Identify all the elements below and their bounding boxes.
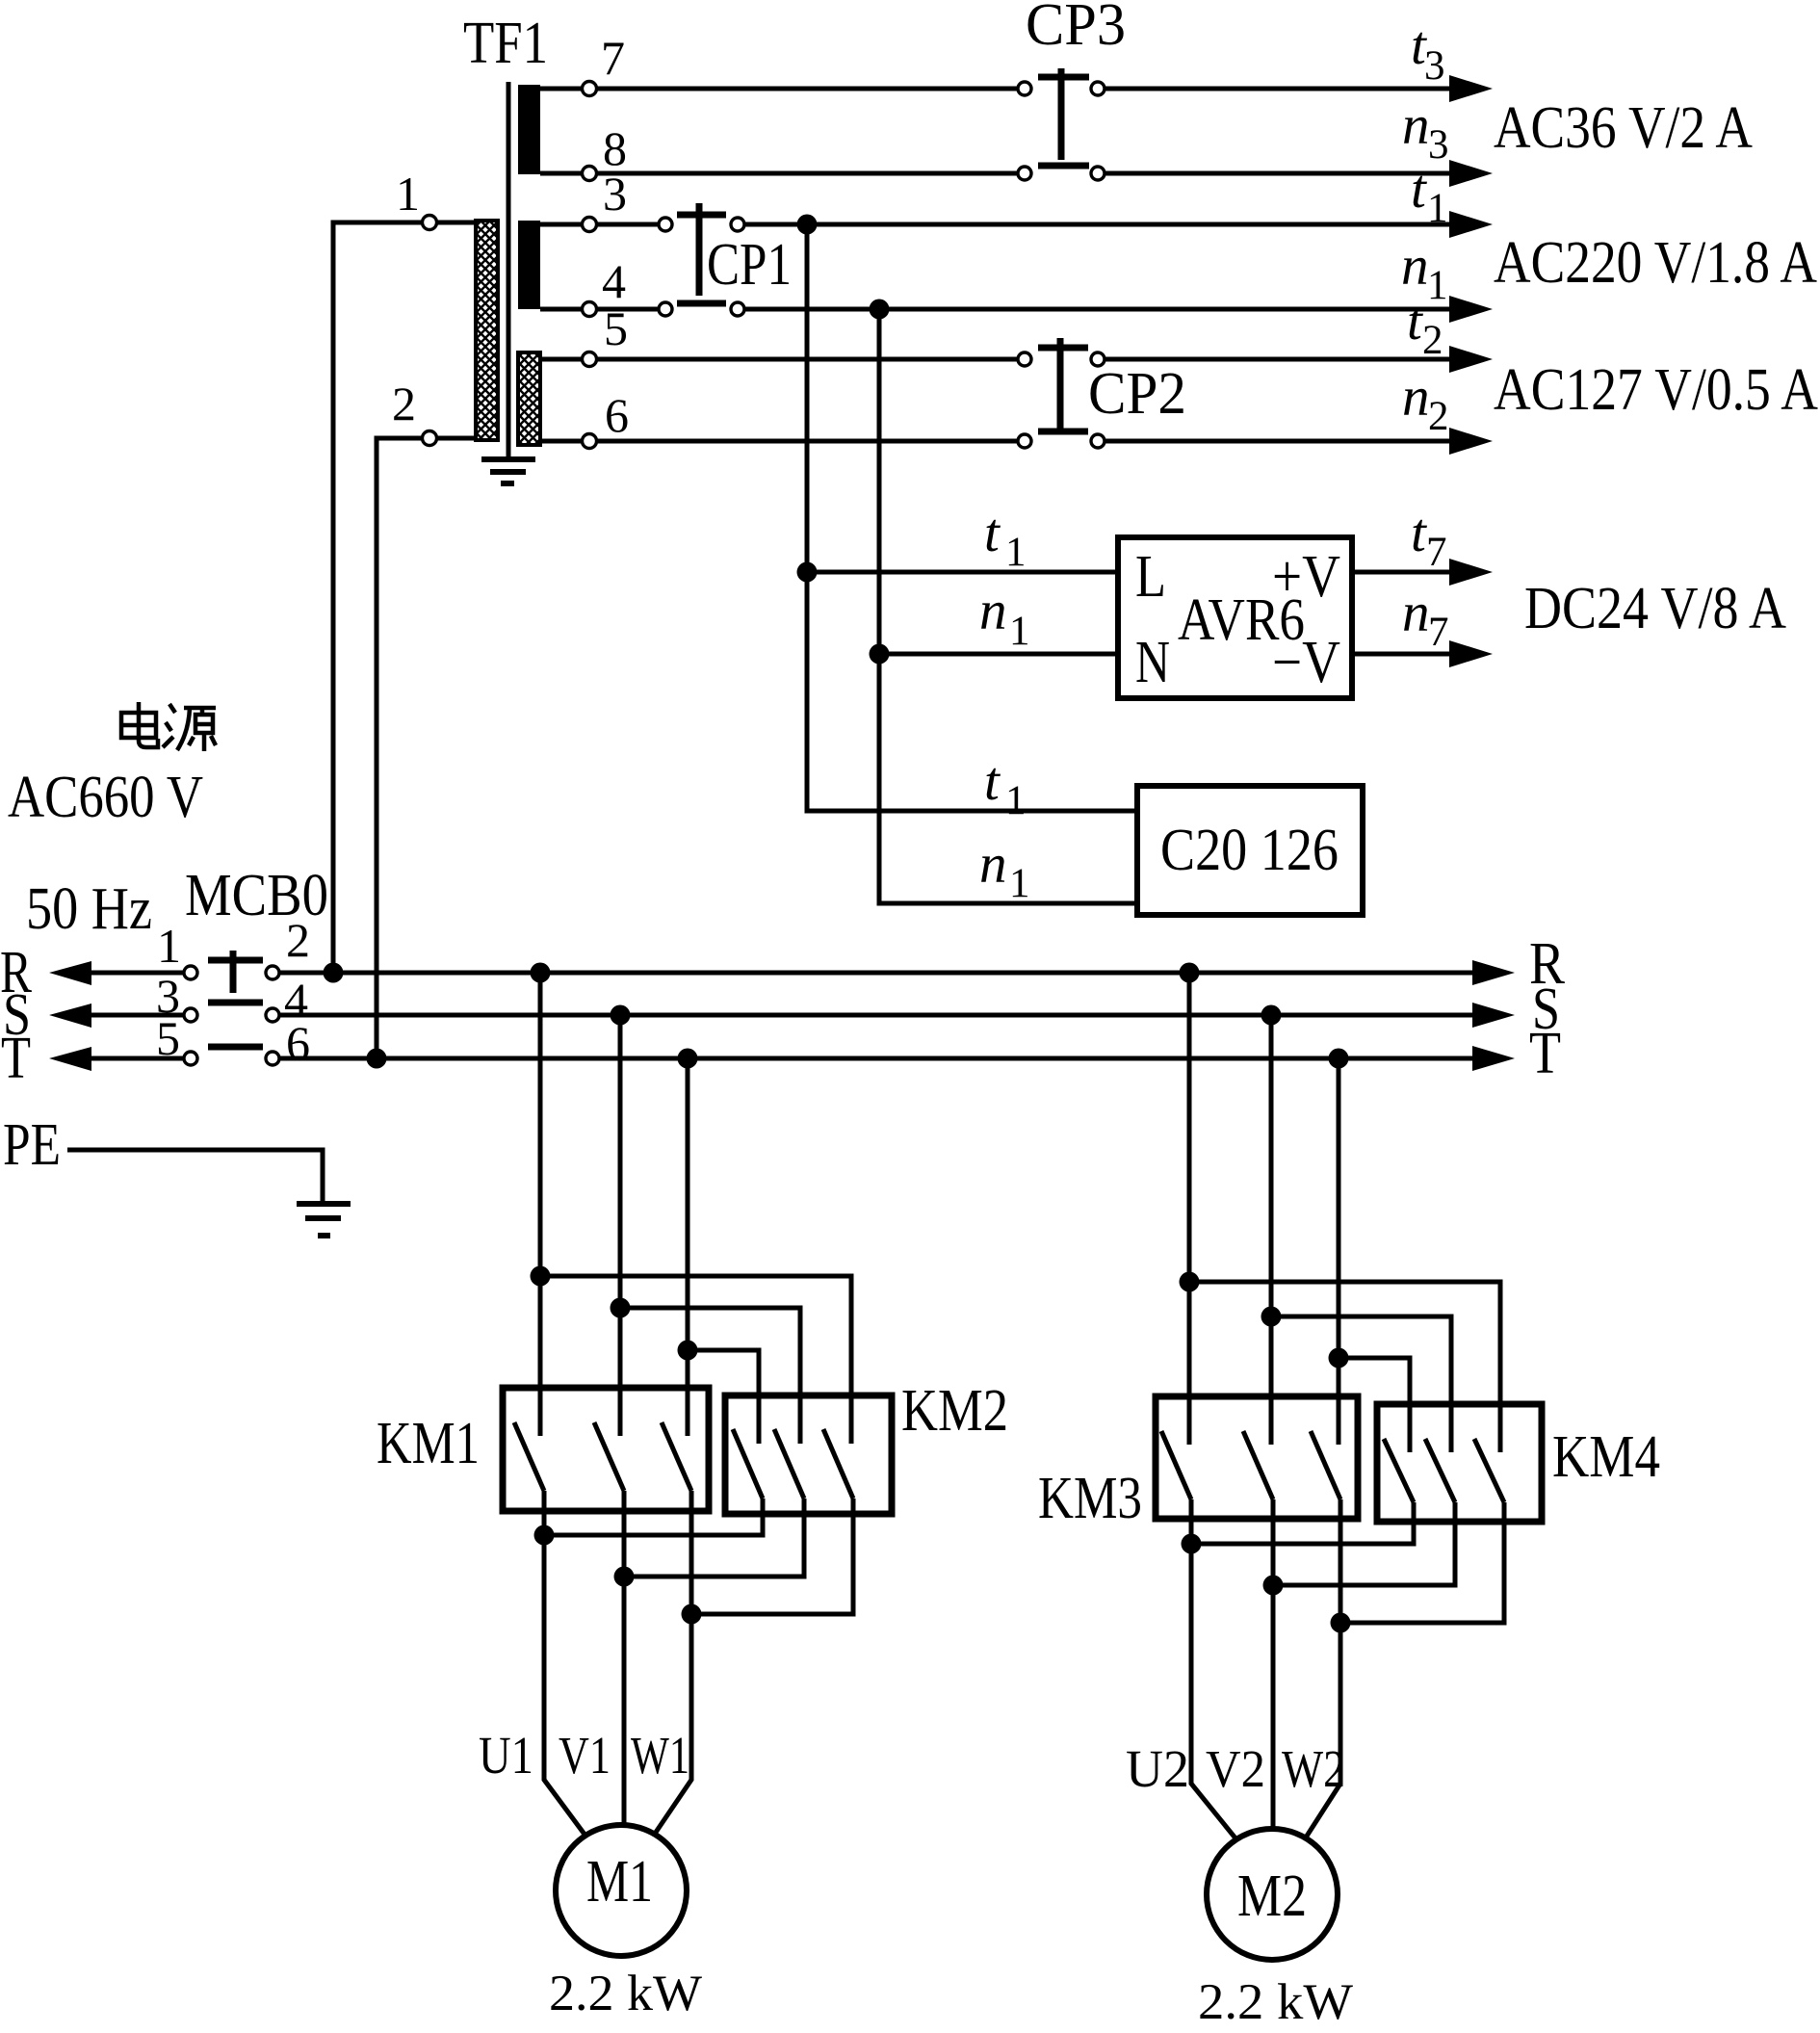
svg-text:50 Hz: 50 Hz <box>26 876 152 942</box>
node M2 W junction <box>1331 1613 1351 1633</box>
svg-text:KM4: KM4 <box>1552 1424 1660 1490</box>
svg-text:W1: W1 <box>631 1726 689 1785</box>
svg-text:1: 1 <box>1427 263 1448 308</box>
svg-text:2.2 kW: 2.2 kW <box>1198 1974 1353 2030</box>
svg-text:T: T <box>1 1026 31 1091</box>
node S-KM3 junction <box>1261 1005 1282 1026</box>
node KM2 pole2 branch junction <box>611 1298 631 1318</box>
wire KM2 pole2 bottom tie <box>624 1499 804 1577</box>
wire 3 (t1 line) <box>540 222 1449 227</box>
breaker CP3 <box>1038 68 1089 166</box>
svg-text:T: T <box>1529 1021 1561 1086</box>
arrow R left <box>49 961 91 985</box>
KM1 pole 2 blade <box>594 1422 624 1491</box>
wire terminal 1 to primary <box>333 222 476 973</box>
svg-text:KM3: KM3 <box>1038 1466 1142 1531</box>
terminal 7 circle <box>583 82 597 96</box>
svg-text:t: t <box>1411 159 1427 220</box>
terminal 4 circle <box>583 302 597 317</box>
controller C20 126 <box>1137 786 1363 915</box>
svg-text:2: 2 <box>286 913 310 967</box>
svg-text:N: N <box>1135 630 1170 695</box>
wire t1 drop to AVR6 and C20 <box>807 224 1137 811</box>
svg-text:TF1: TF1 <box>463 11 548 76</box>
wire KM1 pole2 bottom to M1 <box>622 1491 627 1828</box>
svg-text:L: L <box>1135 544 1166 610</box>
arrow n3 <box>1449 160 1493 187</box>
svg-text:5: 5 <box>156 1011 180 1065</box>
svg-text:CP1: CP1 <box>707 232 792 298</box>
wire T phase drop to KM1 pole 3 <box>686 1058 690 1436</box>
svg-text:3: 3 <box>1428 122 1449 168</box>
wire R line <box>91 971 1472 976</box>
svg-text:U2: U2 <box>1126 1739 1189 1798</box>
label t7 <box>1411 503 1447 575</box>
wire branch to KM2 pole 3 <box>540 1276 851 1444</box>
terminal 5 circle <box>583 352 597 367</box>
node AVR N junction <box>870 644 890 665</box>
svg-text:V2: V2 <box>1206 1739 1265 1798</box>
wire 8 (n3 line) <box>540 171 1449 176</box>
arrow t2 <box>1449 346 1493 373</box>
transformer TF1 secondary winding 5-6 <box>518 352 540 445</box>
svg-text:t: t <box>984 503 1001 563</box>
arrow n7 <box>1449 640 1493 667</box>
arrow S left <box>49 1003 91 1028</box>
svg-text:n: n <box>1401 236 1429 297</box>
arrow R right <box>1472 960 1515 985</box>
svg-text:AC660 V: AC660 V <box>8 765 203 830</box>
label n1 (top) <box>1401 236 1448 308</box>
wire T line <box>91 1056 1472 1061</box>
wire branch to KM4 pole 3 <box>1189 1282 1500 1452</box>
svg-text:1: 1 <box>396 167 420 221</box>
wire KM3 pole1 bottom to M2 <box>1191 1499 1236 1839</box>
wire T phase drop to KM3 pole 3 <box>1337 1058 1341 1445</box>
label n3 <box>1402 95 1449 168</box>
svg-text:AC127 V/0.5 A: AC127 V/0.5 A <box>1494 357 1818 423</box>
wire 6 (n2 line) <box>540 439 1449 444</box>
CP2 contact circles <box>1018 352 1105 448</box>
wire branch to KM2 pole 2 <box>620 1308 800 1444</box>
wire KM4 pole1 bottom tie <box>1191 1502 1414 1544</box>
wire n1 drop to AVR6 and C20 <box>879 309 1137 903</box>
svg-text:2: 2 <box>392 377 416 430</box>
node M2 U junction <box>1182 1534 1202 1554</box>
svg-text:3: 3 <box>603 167 627 221</box>
svg-text:3: 3 <box>1424 43 1445 89</box>
terminal 6 circle <box>583 434 597 449</box>
node AVR L junction <box>797 562 818 583</box>
arrow T right <box>1472 1046 1515 1071</box>
wire R phase drop to KM3 pole 1 <box>1187 973 1192 1445</box>
KM4 pole 1 blade <box>1384 1439 1414 1502</box>
wire 5 (t2 line) <box>540 357 1449 362</box>
KM4 pole 3 blade <box>1474 1439 1504 1502</box>
svg-text:n: n <box>979 834 1007 895</box>
wire branch to KM4 pole 2 <box>1271 1316 1451 1452</box>
svg-text:W2: W2 <box>1282 1739 1345 1798</box>
wire KM2 pole3 bottom tie <box>691 1499 853 1614</box>
wire KM3 pole2 bottom to M2 <box>1271 1499 1276 1832</box>
breaker CP1 <box>677 203 726 303</box>
label 电源 (power source) drawn glyphs <box>121 702 216 751</box>
svg-text:U1: U1 <box>479 1726 533 1785</box>
wire AVR6 L input <box>807 570 1118 575</box>
wire S line <box>91 1013 1472 1018</box>
svg-text:−V: −V <box>1272 630 1340 695</box>
node T-term2 junction <box>367 1049 387 1069</box>
svg-text:M1: M1 <box>586 1849 653 1915</box>
node R-KM3 junction <box>1180 963 1200 983</box>
svg-text:C20 126: C20 126 <box>1160 818 1339 883</box>
node T-KM3 junction <box>1329 1049 1349 1069</box>
wire 4 (n1 line) <box>540 307 1449 312</box>
svg-text:KM1: KM1 <box>377 1411 480 1476</box>
svg-text:5: 5 <box>604 301 628 355</box>
node M1 W junction <box>682 1604 702 1625</box>
svg-text:4: 4 <box>602 254 626 308</box>
node t1 junction <box>797 215 818 235</box>
contactor KM4 box <box>1377 1404 1542 1522</box>
arrow t7 <box>1449 559 1493 586</box>
ground (PE) <box>297 1204 351 1236</box>
arrow T left <box>49 1047 91 1071</box>
terminal 3 circle <box>583 218 597 232</box>
arrow n1 <box>1449 296 1493 323</box>
KM3 pole 3 blade <box>1311 1431 1340 1499</box>
svg-text:1: 1 <box>1005 778 1027 823</box>
KM1 pole 3 blade <box>662 1422 691 1491</box>
wire KM4 pole3 bottom tie <box>1340 1502 1504 1623</box>
breaker CP2 <box>1038 338 1088 431</box>
svg-text:1: 1 <box>1009 609 1030 654</box>
svg-text:M2: M2 <box>1237 1864 1307 1929</box>
svg-text:t: t <box>1407 291 1423 352</box>
KM2 pole 2 blade <box>774 1429 804 1499</box>
label t1 (top) <box>1411 159 1448 231</box>
node M2 V junction <box>1263 1576 1284 1596</box>
svg-text:KM2: KM2 <box>901 1378 1008 1444</box>
KM4 pole 2 blade <box>1425 1439 1455 1502</box>
transformer TF1 core <box>507 82 511 457</box>
KM3 pole 2 blade <box>1243 1431 1273 1499</box>
wire terminal 2 to primary <box>377 438 476 1058</box>
arrow n2 <box>1449 428 1493 455</box>
node n1 junction <box>870 300 890 320</box>
svg-text:n: n <box>979 581 1007 641</box>
wire KM1 pole3 bottom to M1 <box>655 1491 691 1834</box>
contactor KM2 box <box>725 1395 892 1514</box>
label n2 <box>1402 367 1449 439</box>
power supply module AVR6 <box>1118 537 1352 698</box>
wire branch to KM4 pole 1 <box>1339 1358 1410 1452</box>
node R-term1 junction <box>324 963 344 983</box>
label t3 <box>1411 15 1445 89</box>
svg-text:AC36 V/2 A: AC36 V/2 A <box>1494 95 1753 161</box>
wire R phase drop to KM1 pole 1 <box>538 973 543 1436</box>
KM1 pole 1 blade <box>514 1422 544 1491</box>
svg-text:2.2 kW: 2.2 kW <box>549 1966 702 2021</box>
svg-text:1: 1 <box>1009 861 1030 906</box>
svg-text:PE: PE <box>3 1112 61 1178</box>
wire PE <box>67 1150 323 1204</box>
svg-text:n: n <box>1402 583 1430 643</box>
svg-text:t: t <box>984 751 1001 812</box>
arrow t3 <box>1449 75 1493 102</box>
arrow t1 <box>1449 211 1493 238</box>
ground (transformer core) <box>481 459 535 483</box>
svg-text:CP2: CP2 <box>1088 361 1186 427</box>
wire 7 (t3 line) <box>540 87 1449 91</box>
CP3 contact circles <box>1018 82 1105 180</box>
contactor KM3 box <box>1156 1396 1358 1519</box>
CP1 contact circles <box>659 218 744 316</box>
node S-KM1 junction <box>611 1005 631 1026</box>
wire branch to KM2 pole 1 <box>688 1350 759 1444</box>
transformer TF1 primary winding <box>476 221 498 440</box>
wire S phase drop to KM1 pole 2 <box>618 1015 623 1436</box>
label n1 (C20 input) <box>979 834 1030 906</box>
KM2 pole 3 blade <box>823 1429 853 1499</box>
node M1 V junction <box>614 1567 635 1587</box>
transformer TF1 secondary winding 3-4 <box>518 221 540 309</box>
KM3 pole 1 blade <box>1161 1431 1191 1499</box>
svg-text:t: t <box>1411 503 1427 563</box>
node KM2 pole3 branch junction <box>531 1266 551 1287</box>
node KM4 pole1 branch junction <box>1329 1348 1349 1368</box>
label t1 (C20 input) <box>984 751 1027 823</box>
svg-text:n: n <box>1402 95 1430 156</box>
breaker MCB0 <box>208 951 263 1047</box>
label t1 (AVR input) <box>984 503 1027 575</box>
wire n7 output <box>1352 652 1449 657</box>
node T-KM1 junction <box>678 1049 698 1069</box>
motor M2 circle <box>1207 1829 1338 1960</box>
svg-text:1: 1 <box>1427 186 1448 231</box>
wire KM2 pole1 bottom tie <box>544 1499 763 1535</box>
svg-text:n: n <box>1402 367 1430 428</box>
wire KM1 pole1 bottom to M1 <box>544 1491 585 1836</box>
arrow S right <box>1472 1003 1515 1028</box>
svg-text:DC24 V/8 A: DC24 V/8 A <box>1524 576 1786 641</box>
label t2 <box>1407 291 1443 363</box>
MCB0 contact circles <box>184 966 279 1065</box>
svg-text:CP3: CP3 <box>1026 0 1126 58</box>
label n7 <box>1402 583 1449 655</box>
svg-text:1: 1 <box>1005 530 1027 575</box>
transformer TF1 secondary winding 7-8 <box>518 85 540 174</box>
label n1 (AVR input) <box>979 581 1030 654</box>
node M1 U junction <box>534 1525 555 1546</box>
terminal 8 circle <box>583 167 597 181</box>
KM2 pole 1 blade <box>733 1429 763 1499</box>
svg-text:2: 2 <box>1428 394 1449 439</box>
svg-text:6: 6 <box>286 1016 310 1070</box>
wire t7 output <box>1352 570 1449 575</box>
wire S phase drop to KM3 pole 2 <box>1269 1015 1274 1445</box>
svg-text:AC220 V/1.8 A: AC220 V/1.8 A <box>1494 230 1817 296</box>
svg-text:7: 7 <box>1428 610 1449 655</box>
wire KM4 pole2 bottom tie <box>1273 1502 1455 1585</box>
svg-text:1: 1 <box>157 919 181 973</box>
wire AVR6 N input <box>879 652 1118 657</box>
wire KM3 pole3 bottom to M2 <box>1306 1499 1340 1838</box>
terminal 1 circle <box>423 216 437 230</box>
node KM4 pole3 branch junction <box>1180 1272 1200 1292</box>
svg-text:6: 6 <box>605 388 629 442</box>
svg-text:V1: V1 <box>559 1726 611 1785</box>
contactor KM1 box <box>503 1388 709 1511</box>
node KM2 pole1 branch junction <box>678 1341 698 1361</box>
node KM4 pole2 branch junction <box>1261 1307 1282 1327</box>
terminal 2 circle <box>423 431 437 446</box>
motor M1 circle <box>556 1825 687 1956</box>
svg-text:2: 2 <box>1422 318 1443 363</box>
node R-KM1 junction <box>531 963 551 983</box>
svg-text:7: 7 <box>601 31 625 85</box>
svg-text:7: 7 <box>1426 530 1447 575</box>
